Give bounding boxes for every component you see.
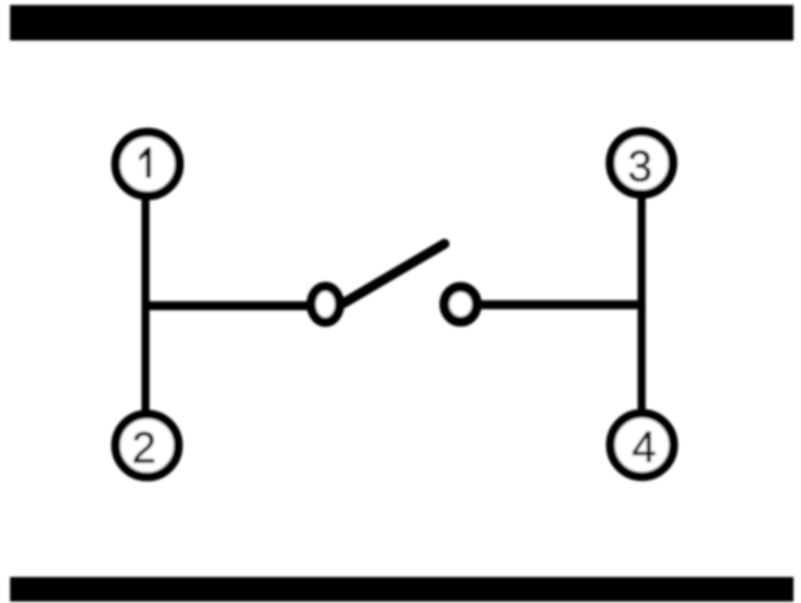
terminal pin 2 <box>116 414 179 477</box>
wire pin1 to pin2 (left vertical) <box>142 190 150 420</box>
movable contact pivot circle <box>311 287 339 323</box>
svg-text:3: 3 <box>628 142 652 191</box>
fixed contact circle <box>444 287 476 322</box>
terminal pin 4 <box>611 414 674 477</box>
terminal pin 3 <box>610 132 673 195</box>
wire right horizontal (fixed contact to pole) <box>470 300 644 309</box>
pin number 1 <box>139 147 151 178</box>
svg-text:4: 4 <box>632 423 656 472</box>
svg-text:2: 2 <box>132 424 156 473</box>
wire left horizontal (pole to movable contact) <box>143 301 318 310</box>
switch lever (movable contact arm) <box>343 244 445 304</box>
wire pin3 to pin4 (right vertical) <box>638 190 646 420</box>
terminal pin 1 <box>116 132 180 196</box>
